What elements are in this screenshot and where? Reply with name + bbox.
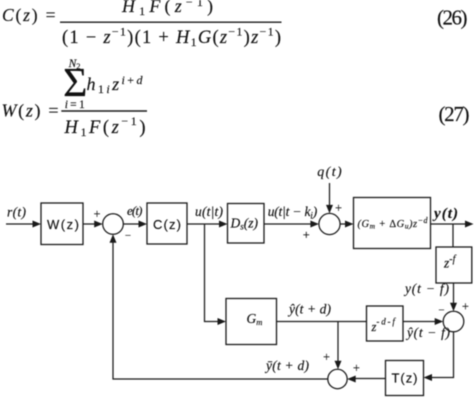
arrowhead into S4 from top	[335, 361, 342, 370]
arrowhead into S1 from below	[110, 234, 117, 243]
svg-text:u(t|t): u(t|t)	[195, 204, 224, 219]
arrowhead into T(z)	[424, 374, 433, 381]
svg-text:H1F(z−1): H1F(z−1)	[64, 114, 146, 139]
wire S3 down and left to T(z)	[430, 332, 454, 378]
svg-text:+: +	[303, 228, 310, 242]
block W(z)	[41, 203, 83, 245]
svg-text:T(z): T(z)	[392, 370, 418, 385]
wire z^-d-f to S3	[403, 321, 437, 323]
svg-text:u(t|t − ki): u(t|t − ki)	[268, 204, 318, 222]
svg-text:z-f: z-f	[443, 254, 457, 271]
svg-text:(27): (27)	[439, 102, 470, 126]
svg-text:y(t): y(t)	[432, 206, 458, 222]
svg-text:ŷ(t + d): ŷ(t + d)	[287, 301, 332, 316]
arrowhead into S3 from left	[435, 318, 444, 325]
wire r(t) to W(z)	[6, 223, 35, 225]
svg-text:H1F(z−1): H1F(z−1)	[121, 0, 213, 18]
wire q(t) down to S2	[329, 183, 331, 207]
summing junction S2	[319, 213, 340, 234]
arrowhead into S3 from top	[450, 303, 457, 312]
svg-text:i=1: i=1	[65, 99, 85, 111]
arrowhead into C(z)	[139, 221, 148, 228]
svg-text:(26): (26)	[437, 5, 468, 29]
wire plant to y(t) output	[431, 223, 466, 225]
wire T(z) to S4	[354, 378, 386, 380]
svg-text:−: −	[438, 305, 444, 317]
block (Gm+dGu)z^-d	[354, 198, 431, 249]
block z^-d-f	[367, 306, 404, 341]
block C(z)	[147, 203, 187, 244]
arrowhead into Ds(z)	[219, 221, 228, 228]
svg-text:(Gm + ΔGu)z−d: (Gm + ΔGu)z−d	[358, 216, 429, 231]
wire W(z) to S1	[83, 223, 97, 225]
arrowhead into S2	[310, 221, 319, 228]
wire branch down to z^-f	[452, 224, 454, 247]
wire C(z) to Ds(z)	[187, 223, 222, 225]
block Ds(z)	[228, 204, 265, 244]
arrowhead into S4 from right	[347, 376, 356, 383]
svg-text:C(z): C(z)	[153, 217, 181, 232]
wire branch down to S4	[337, 322, 339, 364]
summing junction S3	[443, 311, 464, 332]
svg-text:ŷ(t − f): ŷ(t − f)	[405, 325, 451, 340]
svg-text:r(t): r(t)	[7, 205, 27, 220]
summing junction S1	[103, 214, 124, 235]
block z^-f	[436, 247, 472, 283]
svg-text:y(t − f): y(t − f)	[403, 281, 450, 296]
svg-text:q(t): q(t)	[317, 165, 342, 180]
wire Gm to z^-d-f	[277, 321, 367, 323]
arrowhead into S1	[94, 221, 103, 228]
wire S1 to C(z)	[124, 223, 142, 225]
wire branch u(t|t) down	[205, 224, 220, 322]
wire S4 feedback left and up to S1	[113, 241, 328, 379]
arrowhead into plant	[345, 221, 354, 228]
wire S2 to plant	[340, 223, 347, 225]
svg-text:Gm: Gm	[247, 311, 263, 327]
svg-text:+: +	[462, 300, 469, 314]
svg-text:+: +	[335, 201, 342, 215]
block Gm	[226, 299, 277, 345]
arrowhead q(t) into S2	[326, 205, 333, 214]
svg-text:e(t): e(t)	[127, 203, 143, 218]
equation 27 fraction bar	[61, 110, 147, 112]
wire Ds(z) to S2	[264, 223, 313, 225]
equation 26 fraction bar	[60, 21, 282, 23]
svg-text:+: +	[353, 361, 360, 375]
svg-text:C(z) =: C(z) =	[2, 5, 56, 25]
svg-text:ȳ(t + d): ȳ(t + d)	[264, 358, 310, 373]
summing junction S4	[328, 369, 347, 388]
block T(z)	[386, 361, 424, 396]
svg-text:h1izi+d: h1izi+d	[87, 73, 144, 96]
arrowhead into Gm	[218, 318, 227, 325]
wire z^-f down to S3	[453, 283, 455, 305]
arrowhead y(t) right edge	[465, 221, 474, 228]
svg-text:+: +	[323, 350, 330, 364]
svg-text:−: −	[125, 230, 131, 242]
svg-text:W(z): W(z)	[47, 217, 79, 232]
arrowhead into W(z)	[33, 221, 42, 228]
svg-text:W(z) =: W(z) =	[2, 100, 59, 121]
svg-text:z-d-f: z-d-f	[371, 317, 397, 335]
svg-text:(1 − z−1)(1 + H1G(z−1)z−1): (1 − z−1)(1 + H1G(z−1)z−1)	[62, 24, 281, 49]
svg-text:+: +	[93, 207, 100, 221]
svg-text:Ds(z): Ds(z)	[230, 215, 259, 231]
